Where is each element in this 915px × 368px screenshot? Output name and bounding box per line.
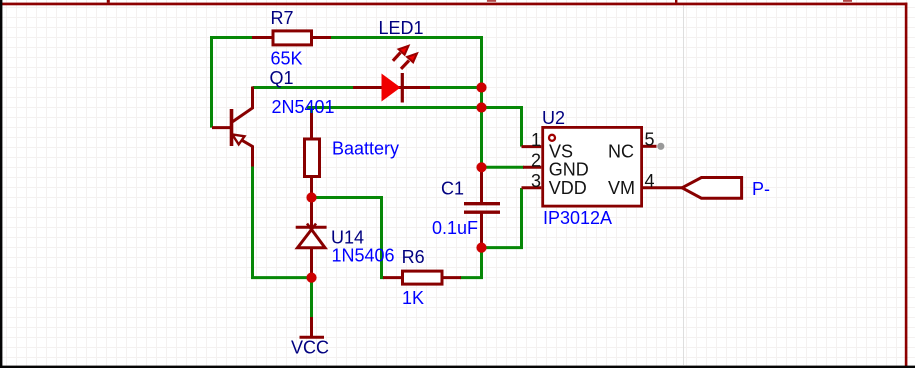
label U2 [542, 108, 565, 128]
svg-text:2N5401: 2N5401 [272, 97, 335, 117]
U2 pin 4 VM [608, 171, 682, 198]
svg-text:65K: 65K [271, 48, 303, 68]
svg-text:Baattery: Baattery [332, 138, 399, 158]
wire diode node down to VCC [310, 278, 313, 318]
IC U2 IP3012A [543, 127, 642, 206]
U2 pin 2 GND [523, 151, 589, 180]
wire Q1 collector to LED anode [253, 86, 355, 89]
LED LED1 [353, 46, 430, 103]
svg-text:NC: NC [608, 142, 634, 162]
window edge bottom [0, 366, 915, 368]
power flag VCC [300, 317, 325, 337]
U2 pin 5 NC [608, 130, 664, 162]
svg-text:P-: P- [752, 179, 770, 199]
value 2N5401 [272, 97, 335, 117]
svg-text:0.1uF: 0.1uF [432, 218, 478, 238]
wire GND node to U2 pin2 [482, 166, 525, 169]
svg-text:1: 1 [531, 130, 541, 150]
junction node LED/R7 [476, 82, 486, 92]
label C1 [441, 178, 464, 198]
wire R7-right down to GND node [330, 38, 482, 168]
wire battery top to U2 pin1 [307, 108, 522, 147]
svg-text:4: 4 [645, 171, 655, 191]
junction node battery bottom [306, 192, 316, 202]
label VCC [291, 338, 329, 358]
label U14 [331, 227, 364, 247]
junction node GND row [476, 162, 486, 172]
svg-text:IP3012A: IP3012A [543, 208, 612, 228]
junction node diode anode [306, 273, 316, 283]
sheet border right [905, 3, 908, 368]
label R7 [271, 8, 294, 28]
svg-text:C1: C1 [441, 178, 464, 198]
svg-text:GND: GND [549, 160, 589, 180]
wire U2 pin3 VDD down to C1 node [482, 188, 522, 248]
diode U14 [296, 198, 327, 278]
svg-text:5: 5 [645, 130, 655, 150]
sheet border top [2, 0, 908, 5]
label P- [752, 179, 770, 199]
svg-text:VDD: VDD [549, 178, 587, 198]
svg-text:Q1: Q1 [270, 68, 294, 88]
junction node C1 bottom [476, 243, 486, 253]
svg-text:1K: 1K [402, 288, 424, 308]
resistor R7 [252, 31, 331, 45]
wire battery bottom to R6 left [312, 198, 385, 278]
svg-text:2: 2 [531, 151, 541, 171]
svg-text:R7: R7 [271, 8, 294, 28]
wire Q1 emitter to diode anode node [253, 166, 312, 278]
value 0.1uF [432, 218, 478, 238]
svg-text:U14: U14 [331, 227, 364, 247]
U2 pin 3 VDD [522, 171, 587, 198]
svg-text:VS: VS [549, 142, 573, 162]
resistor R6 [383, 271, 461, 284]
label Q1 [270, 68, 294, 88]
svg-text:LED1: LED1 [379, 18, 424, 38]
value 65K [271, 48, 303, 68]
junction node 2N5401 row [476, 102, 486, 112]
net flag P- [682, 178, 742, 199]
svg-text:3: 3 [531, 171, 541, 191]
wire C1 node down to R6 right [460, 248, 482, 278]
wire LED cathode to node [429, 86, 482, 89]
window edge left [0, 0, 2, 368]
major grid line [683, 5, 685, 365]
label LED1 [379, 18, 424, 38]
wire R7-left to Q1 base [212, 38, 254, 128]
U2 pin 1 VS [522, 130, 574, 162]
label R6 [402, 247, 425, 267]
transistor Q1 [212, 87, 253, 167]
value IP3012A [543, 208, 612, 228]
battery B1 [305, 113, 320, 198]
svg-text:VCC: VCC [291, 338, 329, 358]
svg-text:U2: U2 [542, 108, 565, 128]
value 1K [402, 288, 424, 308]
svg-text:R6: R6 [402, 247, 425, 267]
value Baattery [332, 138, 399, 158]
value 1N5406 [332, 245, 395, 265]
capacitor C1 [464, 167, 500, 247]
svg-text:VM: VM [608, 178, 635, 198]
svg-text:1N5406: 1N5406 [332, 245, 395, 265]
